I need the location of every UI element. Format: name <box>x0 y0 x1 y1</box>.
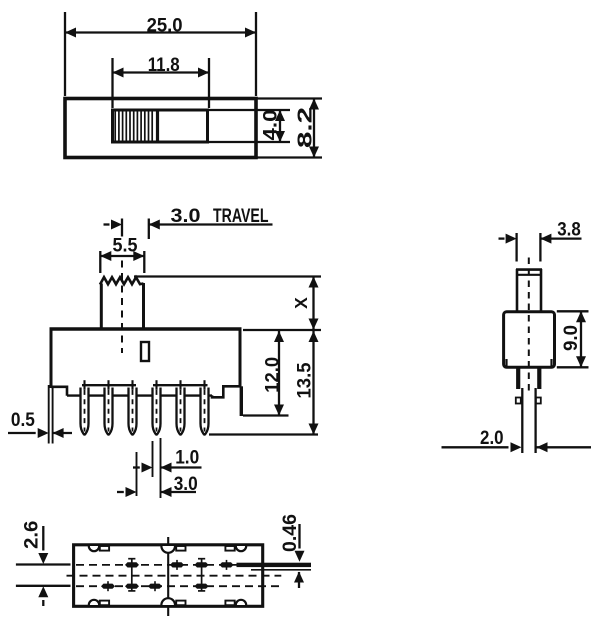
svg-text:3.8: 3.8 <box>557 220 581 241</box>
dim 2.6 arrows <box>42 526 44 551</box>
front view: knob serrated top <box>100 277 144 284</box>
dim 13.5 extension line <box>209 433 318 435</box>
bottom view: row A dashed line <box>76 564 259 566</box>
bottom view: corner and center hole notches <box>89 546 99 551</box>
bottom view: row A terminal pads <box>125 562 139 567</box>
svg-text:2.0: 2.0 <box>480 428 504 449</box>
svg-text:0.5: 0.5 <box>11 410 35 431</box>
dim 9.0 dimension line <box>580 311 582 367</box>
svg-text:11.8: 11.8 <box>148 54 180 76</box>
svg-text:2.6: 2.6 <box>22 521 43 550</box>
dim 3.8 arrows <box>499 237 505 239</box>
front view: pin group bar right <box>153 384 208 386</box>
svg-text:9.0: 9.0 <box>561 325 582 351</box>
top view: knob right edge <box>156 110 159 142</box>
front view: bottom plate line <box>67 394 212 396</box>
side view: actuator right side <box>540 269 543 313</box>
dim 11.8 right extension line <box>208 58 210 108</box>
bottom view: small locating tabs <box>100 546 109 551</box>
side view: terminal pin sides <box>521 388 523 453</box>
bottom view: vertical centerline <box>167 537 169 616</box>
dim 4.0 extension lines <box>208 109 291 111</box>
dim 11.8 left extension line <box>111 58 113 108</box>
bottom view: center dashed line <box>67 575 282 577</box>
dim 0.5 arrows <box>8 432 36 434</box>
dim 3.0 travel arrows and line <box>111 220 122 230</box>
svg-text:1.0: 1.0 <box>175 448 199 469</box>
dim 4.0 dimension line <box>279 110 281 142</box>
svg-text:3.0: 3.0 <box>171 205 201 227</box>
top view: knob hatched grip <box>114 112 116 141</box>
svg-text:0.46: 0.46 <box>280 514 301 552</box>
dim 5.5 extension lines <box>99 251 101 273</box>
front view: right mounting leg <box>240 386 243 416</box>
dim 2.6 extension lines <box>16 563 71 565</box>
dim 12.0 dimension line <box>278 331 280 416</box>
front view: body right edge <box>239 328 242 388</box>
front view: knob left side <box>100 284 103 330</box>
front view: travel left extension line <box>121 219 123 237</box>
dim 1.0: pin4 left extension line <box>152 441 154 477</box>
dim 25.0 left extension line <box>64 12 66 96</box>
front view: pin centerlines (dashed) <box>84 381 86 432</box>
dim 0.46 arrows <box>298 524 300 549</box>
front view: right bottom step <box>212 386 240 397</box>
front view: pin bar ticks <box>83 380 85 390</box>
bottom view: pad center ticks <box>107 581 109 591</box>
front view: travel right extension line <box>148 219 150 240</box>
bottom view: pole connector links <box>131 559 133 591</box>
dim 8.2 dimension line <box>313 99 315 158</box>
dim 1.0: pin4 right extension line <box>160 438 162 498</box>
front view: knob right side <box>142 283 145 329</box>
side view: base block left <box>516 367 520 389</box>
side view: base foot left <box>516 398 521 404</box>
bottom view: protruding terminal (thick) <box>237 563 312 567</box>
side view: actuator left side <box>516 269 519 313</box>
top view: slider slot <box>113 110 208 142</box>
bottom view: protruding terminal underline <box>251 569 311 571</box>
dim 8.2 extension lines <box>256 97 322 99</box>
dim 12.0 extension line <box>243 414 289 416</box>
dim 5.5 dimension line <box>100 255 144 257</box>
side view: body corner marks <box>505 359 507 366</box>
svg-text:X: X <box>291 297 311 309</box>
svg-text:25.0: 25.0 <box>147 14 183 36</box>
dim 0.5 side-plate lines <box>48 385 50 444</box>
top view: switch body outline <box>65 99 256 158</box>
dim 25.0 dimension line <box>65 31 256 33</box>
side view: actuator cap <box>516 268 542 271</box>
dim 1.0 arrows <box>133 466 140 468</box>
side view: base foot right <box>536 398 541 404</box>
front view: pin group bar left <box>82 384 136 386</box>
svg-text:5.5: 5.5 <box>113 235 138 257</box>
side view: base block right <box>537 367 541 389</box>
bottom view: body outline <box>74 545 263 607</box>
dim 3.0 pitch: pin3 extension line <box>136 452 138 496</box>
dim 11.8 dimension line <box>113 71 210 73</box>
front view: slot detail rectangle <box>141 342 149 361</box>
dim 3.0 arrows <box>117 491 124 493</box>
dim X dimension line <box>312 277 314 330</box>
svg-text:TRAVEL: TRAVEL <box>213 205 269 227</box>
dim 3.8 extension lines <box>515 233 517 262</box>
dim 2.0 arrows <box>442 446 509 448</box>
svg-text:4.0: 4.0 <box>261 110 282 141</box>
side view: body <box>504 312 555 368</box>
front view: body left edge <box>50 328 53 389</box>
svg-text:8.2: 8.2 <box>295 107 317 148</box>
front view: body-top extension line <box>243 329 321 331</box>
dim 9.0 extension lines <box>557 310 589 312</box>
dim 25.0 right extension line <box>255 12 257 96</box>
front view: left bottom step <box>51 387 67 396</box>
bottom view: row B terminal pads <box>101 584 115 589</box>
side view: centerline (dashed) <box>528 258 530 395</box>
front view: knob centerline (dashed) <box>121 261 123 354</box>
dim 13.5 dimension line <box>312 331 314 435</box>
svg-text:3.0: 3.0 <box>174 474 198 495</box>
front view: knob-top extension line <box>134 275 321 277</box>
front view: six terminal pins <box>81 388 89 435</box>
bottom view: row B dashed line <box>76 585 281 587</box>
front view: body top <box>50 327 242 331</box>
svg-text:12.0: 12.0 <box>261 357 283 393</box>
svg-text:13.5: 13.5 <box>293 362 315 398</box>
